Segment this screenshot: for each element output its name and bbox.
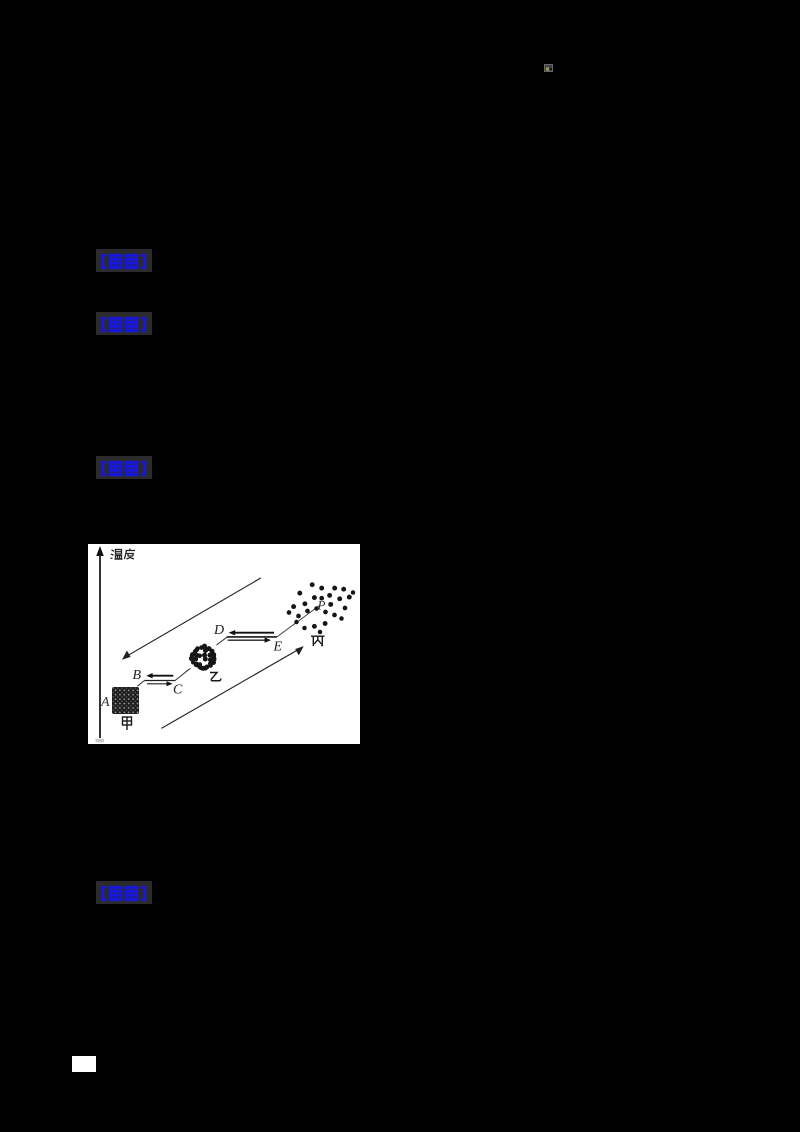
svg-text:B: B bbox=[133, 668, 142, 683]
answer marker row 3 (blue 【答案】 on dark highlight) bbox=[96, 456, 152, 479]
solid block 甲 bbox=[112, 687, 139, 714]
C arrow (points right) bbox=[147, 683, 167, 685]
phase-change figure (white panel) bbox=[88, 544, 360, 744]
wire from E to gas region bbox=[277, 606, 320, 637]
answer marker row 1 (blue 【答案】 on dark highlight) bbox=[96, 249, 152, 272]
温度 label bbox=[111, 549, 136, 560]
丙 label bbox=[311, 636, 325, 646]
small white box bottom-left bbox=[72, 1056, 96, 1072]
long heating arrow (lower diagonal, points up-right) bbox=[161, 648, 301, 728]
乙 label bbox=[210, 673, 221, 681]
liquid blob 乙 (cluster of particles) bbox=[189, 644, 217, 671]
wire from C to liquid blob bbox=[176, 668, 191, 680]
E arrow (points right) bbox=[228, 639, 266, 641]
scan artifact (light gray) bbox=[96, 739, 105, 743]
svg-text:C: C bbox=[173, 683, 183, 698]
甲 label bbox=[123, 717, 132, 730]
svg-text:A: A bbox=[100, 695, 110, 710]
equilibrium middle line bbox=[144, 680, 175, 682]
long cooling arrow (upper diagonal, points down-left) bbox=[125, 578, 261, 658]
temperature axis bbox=[99, 553, 101, 738]
answer marker row 2 (blue 【详解】 on dark highlight) bbox=[96, 312, 152, 335]
svg-text:D: D bbox=[213, 623, 224, 638]
gas particles 丙 bbox=[287, 582, 356, 634]
equilibrium middle line bbox=[227, 636, 277, 638]
wire from blob to D/E arrows bbox=[216, 637, 227, 645]
answer marker row 4 (blue 【详解】 on dark highlight) bbox=[96, 881, 152, 904]
small image placeholder icon bbox=[544, 64, 553, 73]
B arrow (points left) bbox=[151, 675, 173, 677]
svg-text:E: E bbox=[273, 640, 283, 655]
axis arrowhead bbox=[96, 546, 104, 556]
D arrow (points left) bbox=[234, 632, 274, 634]
wire from block to B/C arrows bbox=[137, 681, 144, 687]
